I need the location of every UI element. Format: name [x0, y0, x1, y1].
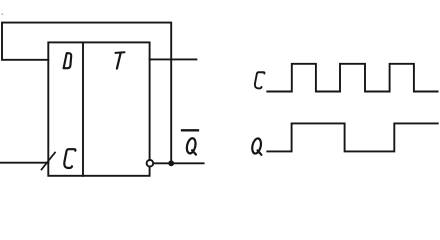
wire feedback from output up and around to D input	[2, 23, 171, 164]
pin label T	[116, 52, 125, 68]
waveform label Q	[251, 138, 262, 155]
wire T output stub	[150, 58, 197, 60]
flip-flop U1 column divider	[82, 42, 84, 175]
junction node on output wire	[168, 160, 174, 166]
clock dynamic-input slash	[42, 153, 56, 170]
waveform Q trace	[267, 123, 437, 151]
pin label D	[64, 53, 72, 68]
waveform C trace	[267, 64, 437, 92]
overbar of Qbar label	[182, 129, 198, 131]
waveform label C	[255, 72, 265, 88]
pin label C	[64, 149, 75, 168]
output label Qbar (Q glyph)	[185, 137, 196, 154]
flip-flop U1 body	[48, 42, 149, 175]
wire clock input C	[1, 162, 49, 164]
inversion bubble on output	[147, 160, 154, 167]
paper speck	[1, 13, 3, 15]
wire inverted output Q	[153, 162, 203, 164]
